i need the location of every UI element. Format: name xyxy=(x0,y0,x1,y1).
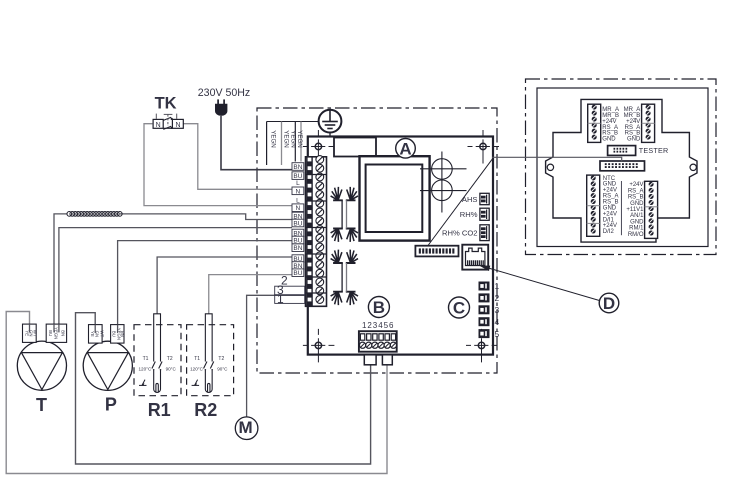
svg-text:3: 3 xyxy=(495,305,500,315)
svg-text:5: 5 xyxy=(495,329,500,339)
svg-text:90°C: 90°C xyxy=(217,366,228,371)
svg-text:123456: 123456 xyxy=(362,321,394,330)
svg-text:R1: R1 xyxy=(148,400,171,420)
svg-text:WT: WT xyxy=(33,330,38,337)
svg-text:RM/1: RM/1 xyxy=(629,226,644,232)
svg-text:GND: GND xyxy=(630,201,644,207)
svg-text:RS_A: RS_A xyxy=(628,188,644,194)
svg-text:RS_B: RS_B xyxy=(628,195,644,201)
svg-text:YE: YE xyxy=(90,331,95,337)
svg-text:M: M xyxy=(239,418,253,437)
svg-text:1: 1 xyxy=(495,281,500,291)
svg-text:YEGN: YEGN xyxy=(290,130,297,148)
svg-text:R2: R2 xyxy=(194,400,217,420)
svg-text:T1: T1 xyxy=(143,356,149,362)
svg-text:BU: BU xyxy=(48,330,53,336)
svg-text:B: B xyxy=(373,298,385,317)
svg-text:N: N xyxy=(175,122,180,129)
svg-text:C: C xyxy=(453,299,465,318)
svg-text:120°C: 120°C xyxy=(138,366,152,371)
svg-text:230V 50Hz: 230V 50Hz xyxy=(198,87,250,99)
svg-text:A: A xyxy=(399,139,411,158)
svg-text:N: N xyxy=(156,122,161,129)
svg-text:N: N xyxy=(296,188,301,195)
svg-text:AN/1: AN/1 xyxy=(630,213,644,219)
svg-text:GND: GND xyxy=(602,137,616,143)
svg-text:GND: GND xyxy=(630,219,644,225)
svg-text:BN: BN xyxy=(60,330,65,336)
svg-text:BU: BU xyxy=(293,270,302,277)
svg-text:T1: T1 xyxy=(194,356,200,362)
svg-text:YEGN: YEGN xyxy=(270,130,277,148)
svg-text:RH%: RH% xyxy=(460,210,478,219)
svg-text:RH% CO2: RH% CO2 xyxy=(442,229,477,238)
svg-text:TK: TK xyxy=(155,94,177,112)
svg-text:L: L xyxy=(296,197,300,204)
svg-text:1: 1 xyxy=(277,292,284,306)
svg-text:T2: T2 xyxy=(167,356,173,362)
svg-text:T: T xyxy=(36,395,47,415)
svg-text:L: L xyxy=(296,180,300,187)
svg-text:BN: BN xyxy=(293,164,302,171)
svg-text:BN: BN xyxy=(120,331,125,337)
svg-text:BU: BU xyxy=(293,221,302,228)
svg-text:BN: BN xyxy=(293,245,302,252)
svg-text:2: 2 xyxy=(495,293,500,303)
svg-text:4: 4 xyxy=(495,317,500,327)
svg-text:GND: GND xyxy=(627,137,641,143)
svg-text:D/I2: D/I2 xyxy=(603,229,615,235)
svg-text:RM/O: RM/O xyxy=(628,232,644,238)
svg-text:120°C: 120°C xyxy=(190,366,204,371)
svg-text:D: D xyxy=(603,294,615,313)
svg-text:P: P xyxy=(105,395,117,415)
svg-text:+24V: +24V xyxy=(629,182,643,188)
svg-text:BU: BU xyxy=(112,331,117,337)
svg-text:WT: WT xyxy=(99,331,104,338)
svg-text:TESTER: TESTER xyxy=(639,146,669,155)
svg-text:T2: T2 xyxy=(218,356,224,362)
svg-text:AHS: AHS xyxy=(462,195,478,204)
svg-text:YEGN: YEGN xyxy=(283,130,290,148)
svg-text:+11V1: +11V1 xyxy=(626,207,644,213)
svg-text:YEGN: YEGN xyxy=(296,130,303,148)
svg-text:90°C: 90°C xyxy=(166,366,177,371)
svg-text:N: N xyxy=(296,205,301,212)
